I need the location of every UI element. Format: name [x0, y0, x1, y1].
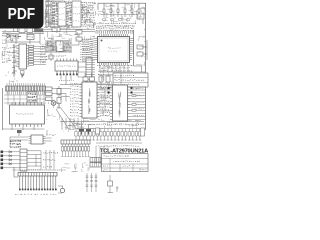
resistor network RN1: [27, 92, 37, 102]
transistor Q9: [58, 186, 65, 193]
ground ticks: [75, 139, 141, 141]
connector CN5: [20, 149, 27, 171]
shield region: [45, 40, 72, 53]
polarity mark: [107, 87, 133, 94]
shield speckle: [46, 41, 72, 53]
regulator U5a: [27, 35, 34, 40]
wire mid bus top right: [101, 14, 142, 16]
wire cluster to U11: [52, 89, 70, 102]
resistor R50: [137, 45, 143, 49]
svg-text:PDF: PDF: [8, 6, 36, 23]
resistor pack dashes: [10, 140, 21, 148]
wire right of U12: [130, 87, 146, 120]
PDF badge overlay: [0, 0, 44, 29]
IC U7: [55, 59, 78, 74]
pin labels right of U4: [84, 2, 95, 26]
wire drops CN7: [63, 144, 89, 156]
bus below U10: [100, 72, 145, 75]
capacitor cluster C10-C17: [52, 3, 55, 24]
diodes D15-D18: [9, 151, 11, 165]
resistor R18: [21, 71, 25, 79]
tuner box: [52, 27, 68, 31]
junction dots: [98, 87, 110, 88]
text left col rows: [2, 47, 12, 55]
connector CN7: [61, 140, 90, 144]
wire mesh L: [99, 67, 113, 86]
resistors right of U12: [132, 95, 136, 112]
labels under CN6: [15, 194, 56, 195]
resistor R51: [137, 52, 143, 56]
resistor R61: [106, 76, 110, 82]
wire mesh A: [44, 0, 96, 28]
wire mesh G: [46, 101, 60, 120]
net labels: [40, 44, 46, 64]
text above U7: [46, 55, 66, 59]
bus line 2: [96, 142, 142, 144]
connector CN2: [6, 83, 46, 94]
IC U8: [10, 102, 45, 127]
net labels above U10: [96, 27, 134, 33]
title block: [102, 154, 149, 172]
wire mesh F: [101, 121, 145, 129]
note table: [113, 73, 148, 87]
IC U12 center text: [119, 92, 121, 117]
connector CN4: [86, 58, 95, 82]
capacitor C20: [14, 34, 21, 39]
wire mesh B: [97, 4, 146, 24]
label row: [96, 145, 139, 146]
wire below U8: [2, 127, 44, 130]
text specks band edges: [46, 0, 70, 27]
wire mesh J: [136, 29, 145, 66]
capacitor C45: [83, 73, 95, 81]
wire strings: [87, 173, 96, 192]
wire left rail: [1, 88, 3, 130]
capacitor C30: [137, 14, 144, 19]
wire stubs: [99, 82, 113, 88]
jumper grid J2: [90, 163, 101, 168]
wire ladder drops: [76, 129, 140, 141]
IC U12: [110, 85, 130, 121]
transistor Q3: [51, 101, 56, 106]
wire horizontal bus top: [2, 29, 95, 33]
wire mesh I: [2, 44, 18, 84]
wire risers: [62, 118, 78, 130]
IC U11 center text: [89, 88, 91, 114]
wire mesh K: [62, 163, 90, 172]
crystal X1: [49, 53, 53, 61]
resistor array R10-R17: [29, 45, 34, 65]
wire comb: [27, 151, 41, 170]
wire drops below U10: [100, 65, 128, 72]
wire right of U10: [132, 39, 134, 54]
text specks top band rows: [45, 4, 57, 24]
wire pad leads: [3, 152, 20, 168]
capacitor chain C1-C6: [12, 44, 17, 77]
text specks top: [45, 1, 135, 28]
comp ticks: [43, 152, 58, 167]
pin labels left of U11: [70, 83, 79, 116]
wire web: [4, 91, 46, 105]
test point TP1: [21, 75, 24, 77]
text under badge: [2, 35, 16, 40]
pin labels below U10: [97, 65, 133, 69]
ground ticks 2: [62, 156, 90, 158]
filter FB1: [34, 28, 44, 32]
dotted ground line: [12, 169, 66, 171]
pads P1-P5: [1, 151, 4, 170]
connector CN0: [14, 28, 18, 32]
resistors R40-R45: [103, 9, 140, 13]
text row mid: [76, 124, 143, 126]
IC U2: [56, 2, 69, 26]
IC U4 top: [70, 1, 84, 27]
label under U7: [59, 80, 75, 81]
wire columns: [96, 146, 108, 164]
cap bank: [96, 128, 145, 136]
connector CN6: [18, 173, 57, 177]
capacitor C40: [57, 86, 61, 108]
bus line: [75, 128, 143, 130]
diode D5: [4, 34, 14, 38]
wire verticals comb: [46, 150, 54, 170]
net labels right of U12: [133, 88, 144, 116]
capacitor C50: [108, 175, 119, 193]
wire diagonals: [56, 104, 76, 128]
wire top rail: [98, 3, 146, 10]
component cluster: [72, 30, 82, 45]
wire between U11 U12: [100, 90, 111, 111]
resistor R60: [99, 76, 103, 82]
wire mid bus: [60, 85, 145, 122]
IC U10 QFP: [95, 34, 132, 65]
wire feeds U13: [10, 130, 52, 147]
wire array outputs: [34, 46, 47, 64]
wire resistor drops: [104, 3, 139, 17]
transistors Q5-Q8: [103, 18, 130, 21]
regulator U9: [46, 87, 53, 101]
labels below U10 zone: [98, 70, 133, 75]
pin labels right of U11: [100, 83, 110, 117]
connector CN1: [19, 28, 25, 33]
resistors R70-R82: [75, 132, 141, 137]
net labels left of U10: [80, 38, 93, 60]
wire fan left of U10: [82, 39, 95, 62]
label right of U13: [46, 134, 56, 135]
wire mesh C: [3, 28, 19, 44]
label text: [2, 58, 9, 62]
wire down from U7: [61, 76, 71, 85]
solder pads: [56, 74, 78, 76]
crystal X2: [17, 130, 22, 136]
IC U6: [17, 44, 29, 69]
relay K1: [27, 28, 33, 33]
pin pads CN6: [19, 189, 57, 191]
wire mesh E: [62, 118, 96, 132]
wire vertical feeds left of U2: [46, 0, 51, 28]
diode pair D10 D11: [79, 124, 91, 135]
IC U11: [80, 82, 100, 118]
wire right rail: [134, 3, 146, 130]
wire mesh D: [45, 28, 95, 40]
wire hook: [14, 167, 18, 177]
resistor hatches: [86, 176, 98, 186]
title text: [100, 148, 149, 154]
resistors R90-R99: [61, 147, 89, 152]
wire drops: [6, 33, 40, 44]
wire to rail: [134, 40, 147, 72]
diode cluster labels: [100, 23, 136, 27]
jumper grid J1: [90, 158, 101, 163]
stray mark: [21, 74, 24, 76]
wire pins CN6: [20, 176, 56, 190]
wire mesh H: [97, 89, 110, 120]
label text right of U2: [67, 2, 71, 26]
wire feeds CN4: [78, 62, 86, 77]
IC U13: [29, 135, 46, 144]
